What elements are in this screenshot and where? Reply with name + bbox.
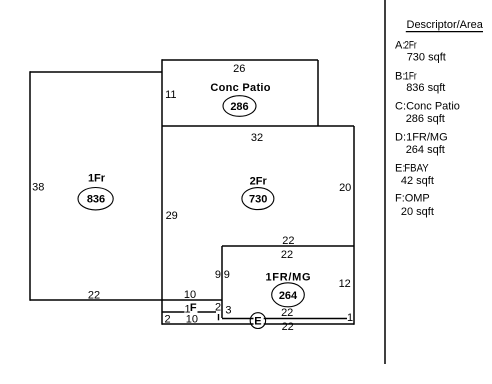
- svg-text:22: 22: [281, 249, 293, 261]
- svg-text:FBAY: FBAY: [404, 163, 429, 175]
- svg-text:1FR/MG: 1FR/MG: [265, 272, 311, 284]
- svg-text:32: 32: [251, 132, 263, 144]
- svg-text:OMP: OMP: [405, 193, 430, 205]
- svg-text:10: 10: [186, 313, 198, 325]
- svg-text:E: E: [254, 316, 261, 328]
- svg-text:1FR/MG: 1FR/MG: [406, 132, 448, 144]
- svg-text:3: 3: [225, 305, 231, 317]
- svg-text:9: 9: [215, 269, 221, 281]
- svg-text:836 sqft: 836 sqft: [406, 82, 445, 94]
- svg-text:286 sqft: 286 sqft: [406, 113, 445, 125]
- svg-text:F:: F:: [395, 193, 405, 205]
- svg-text:1: 1: [347, 312, 353, 324]
- svg-text:29: 29: [166, 210, 178, 222]
- svg-text:2: 2: [215, 301, 221, 313]
- svg-text:2Fr: 2Fr: [404, 39, 417, 51]
- svg-text:F: F: [190, 302, 197, 314]
- svg-text:12: 12: [339, 278, 351, 290]
- svg-text:22: 22: [282, 321, 294, 333]
- svg-text:Conc Patio: Conc Patio: [210, 82, 270, 94]
- svg-text:264: 264: [279, 290, 298, 302]
- svg-text:9: 9: [224, 269, 230, 281]
- svg-text:Conc Patio: Conc Patio: [406, 101, 460, 113]
- svg-text:730: 730: [249, 194, 267, 206]
- svg-text:1Fr: 1Fr: [404, 70, 417, 82]
- svg-text:11: 11: [165, 89, 176, 101]
- svg-text:2: 2: [164, 313, 170, 325]
- svg-text:22: 22: [88, 289, 100, 301]
- svg-text:286: 286: [230, 101, 248, 113]
- svg-text:2Fr: 2Fr: [250, 176, 268, 188]
- svg-text:22: 22: [281, 307, 293, 319]
- svg-text:Descriptor/Area: Descriptor/Area: [407, 19, 484, 31]
- svg-text:26: 26: [233, 63, 245, 75]
- svg-text:730 sqft: 730 sqft: [407, 51, 446, 63]
- svg-text:836: 836: [87, 194, 105, 206]
- svg-text:20 sqft: 20 sqft: [401, 206, 434, 218]
- svg-text:38: 38: [32, 182, 44, 194]
- svg-text:C:: C:: [395, 101, 406, 113]
- svg-text:10: 10: [184, 289, 196, 301]
- svg-text:22: 22: [282, 235, 294, 247]
- svg-text:264 sqft: 264 sqft: [406, 144, 445, 156]
- svg-text:42 sqft: 42 sqft: [401, 175, 434, 187]
- svg-text:D:: D:: [395, 132, 406, 144]
- svg-text:1Fr: 1Fr: [88, 172, 106, 184]
- svg-text:20: 20: [339, 182, 351, 194]
